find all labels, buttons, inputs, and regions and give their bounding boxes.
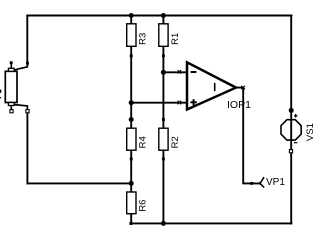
- pin square R4 bottom: [130, 158, 133, 161]
- junction dot inverting node: [161, 70, 166, 75]
- sensor element clipped label: [0, 90, 1, 99]
- voltage source VS1 minus mark: [294, 142, 297, 144]
- pin square R2 top: [162, 118, 165, 121]
- junction dot non-inverting node: [129, 100, 134, 105]
- pin square below R1: [162, 54, 165, 57]
- wire bottom rail: [131, 222, 291, 224]
- probe VP1 tip: [260, 177, 264, 188]
- pin square below R3: [130, 54, 133, 57]
- wire top rail: [27, 15, 291, 17]
- junction dot bottom rail R2: [161, 221, 166, 226]
- pin square wire end top: [26, 62, 29, 65]
- wire op-amp output: [236, 88, 260, 184]
- junction dot bottom left node: [129, 181, 134, 186]
- wire sensor top diagonal: [14, 64, 27, 70]
- wire left drop from top rail: [26, 16, 28, 64]
- wire right rail: [290, 16, 292, 224]
- pin square VS1 bottom (open): [289, 150, 292, 153]
- junction dot top rail left column: [129, 13, 134, 18]
- svg-text:VP1: VP1: [266, 177, 285, 188]
- wire non-inverting input: [131, 102, 187, 104]
- wire inverting input: [163, 71, 187, 73]
- svg-text:IOP1: IOP1: [227, 99, 251, 111]
- svg-text:R1: R1: [170, 33, 181, 45]
- op-amp IOP1 minus input mark: [191, 71, 197, 73]
- junction dot R4 top: [129, 117, 134, 122]
- voltage source VS1 plus mark: [294, 114, 298, 118]
- pin cross op-amp output: [241, 86, 245, 90]
- wire bridge left column: [130, 16, 132, 224]
- pin square R6 bottom: [129, 222, 132, 225]
- op-amp IOP1 plus input mark: [190, 99, 196, 105]
- wire left component lower drop: [26, 111, 28, 183]
- pin square sensor bottom (open): [10, 110, 13, 113]
- wire bottom left horizontal: [27, 182, 131, 184]
- resistor R2 body: [159, 128, 168, 150]
- resistor R3 body: [127, 24, 136, 47]
- junction dot top rail right column: [161, 13, 166, 18]
- resistor R6 body: [127, 192, 136, 214]
- pin square probe VP1: [250, 182, 253, 185]
- resistor R4 body: [127, 128, 136, 150]
- resistor R1 body: [159, 24, 168, 47]
- pin square wire end bottom (open): [26, 110, 29, 113]
- pin square R2 bottom: [162, 158, 165, 161]
- sensor element body (left): [5, 64, 17, 110]
- voltage source VS1 body: [281, 120, 301, 140]
- svg-text:R6: R6: [138, 200, 149, 212]
- svg-text:VS1: VS1: [305, 123, 316, 141]
- pin cross non-inverting input: [178, 101, 182, 105]
- svg-text:R3: R3: [138, 33, 149, 45]
- wire bridge right column: [162, 16, 164, 224]
- pin cross inverting input: [178, 70, 182, 74]
- pin square sensor top: [10, 61, 13, 64]
- junction dot above VS1: [289, 108, 294, 113]
- op-amp IOP1 internal bar: [214, 83, 216, 91]
- svg-text:R4: R4: [138, 136, 149, 148]
- op-amp IOP1 triangle: [187, 62, 236, 109]
- wire sensor bottom diagonal: [14, 105, 27, 110]
- svg-text:R2: R2: [170, 136, 181, 148]
